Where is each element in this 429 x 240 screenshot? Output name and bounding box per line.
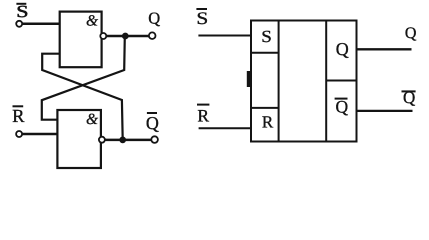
svg-text:Q: Q bbox=[336, 39, 349, 59]
svg-text:R: R bbox=[197, 106, 209, 126]
svg-text:Q: Q bbox=[335, 97, 348, 117]
svg-text:Q: Q bbox=[148, 9, 160, 28]
svg-text:Q: Q bbox=[405, 25, 417, 42]
svg-text:&: & bbox=[86, 111, 98, 128]
svg-text:&: & bbox=[86, 13, 98, 30]
svg-text:R: R bbox=[12, 107, 25, 127]
svg-text:S: S bbox=[261, 27, 272, 46]
svg-text:S: S bbox=[16, 2, 28, 21]
svg-text:S: S bbox=[196, 8, 208, 28]
svg-text:Q: Q bbox=[403, 88, 415, 107]
svg-text:Q: Q bbox=[146, 113, 159, 133]
svg-text:R: R bbox=[262, 112, 274, 131]
